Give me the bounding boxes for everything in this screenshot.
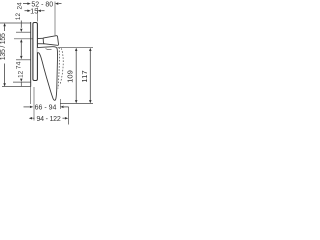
floating down arrow above y=82.1 line — [20, 79, 23, 82]
handle grip (upper blade) — [43, 36, 58, 46]
wall extension line below — [30, 87, 32, 104]
svg-text:52 - 80: 52 - 80 — [31, 1, 53, 8]
svg-text:24: 24 — [17, 2, 24, 10]
lever blade (hanging down) — [37, 47, 57, 101]
extension corner down to 94-122 level — [68, 107, 70, 125]
extension line y=86.5 (bottom reference) — [2, 86, 31, 88]
blade neck crease — [46, 49, 52, 50]
dimension 117 — [80, 48, 92, 104]
handle tip extension line — [59, 99, 61, 109]
wall line — [30, 22, 32, 87]
vertical dim between arm level and y=59.7 — [20, 39, 23, 59]
extension line y=82.1 — [13, 81, 31, 83]
extension line y=59.8 — [16, 59, 31, 61]
svg-text:12: 12 — [18, 70, 25, 78]
reference line from handle shoulder to right edge — [58, 47, 94, 49]
dimension 135 / 155 (overall height, left) — [0, 23, 7, 87]
dim stem 24/12 with down arrow — [20, 21, 23, 33]
svg-text:109: 109 — [66, 70, 75, 83]
dashed alternate handle position (inner) — [58, 47, 59, 88]
extension line right of 52-80 down to handle knob — [54, 2, 56, 36]
plate-face extension line — [33, 87, 35, 121]
escutcheon plate — [33, 23, 38, 81]
dashed alternate handle position (outer) — [60, 48, 63, 85]
extension line y=32.2 — [16, 31, 31, 33]
dimension 94 - 122 — [29, 116, 68, 123]
dimension 15 (escutcheon thickness) — [25, 8, 45, 15]
short stem between 82.1 and 86.5 — [20, 82, 22, 86]
svg-text:15: 15 — [30, 8, 38, 15]
handle arm — [37, 37, 44, 39]
svg-text:74: 74 — [16, 61, 23, 69]
svg-text:94 - 122: 94 - 122 — [36, 116, 60, 123]
floor reference line — [60, 103, 93, 105]
svg-text:12: 12 — [15, 13, 22, 21]
svg-text:135 / 155: 135 / 155 — [0, 33, 7, 60]
svg-text:66 - 94: 66 - 94 — [35, 105, 57, 112]
extension line right of 15 — [37, 8, 39, 22]
dimension 109 — [66, 48, 78, 104]
dimension 66 - 94 — [24, 105, 69, 112]
svg-text:117: 117 — [80, 70, 89, 82]
extension line y=38.8 (arm top level) — [14, 38, 33, 40]
extension line, top of plate — [0, 22, 31, 24]
dimension 52 - 80 (top protrusion) — [23, 1, 62, 8]
